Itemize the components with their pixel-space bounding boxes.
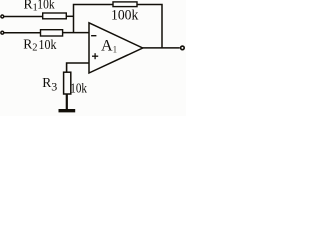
svg-text:100k: 100k (111, 8, 139, 24)
feedback wire to output node (137, 5, 162, 48)
svg-text:A1: A1 (101, 38, 117, 55)
svg-text:10k: 10k (39, 37, 57, 52)
input terminal 2 (1, 31, 4, 34)
output wire (143, 47, 180, 49)
svg-text:10k: 10k (70, 80, 87, 95)
ground (59, 109, 76, 112)
wire R2 to op-amp inverting input (63, 32, 89, 34)
minus sign (91, 35, 96, 37)
input terminal 1 (1, 15, 4, 18)
wire + node to R3 stub (67, 63, 89, 72)
wire input1 to R1 (4, 16, 43, 18)
svg-text:R1: R1 (24, 0, 38, 14)
wire input2 to R2 (4, 32, 41, 34)
plus sign (92, 53, 98, 59)
resistor Rf 100k (113, 2, 137, 7)
svg-text:R2: R2 (23, 36, 37, 53)
resistor R3 10k (64, 72, 71, 94)
wire R1 to node A (66, 15, 73, 17)
svg-text:R3: R3 (42, 75, 57, 93)
output terminal (181, 46, 185, 50)
node A vertical: feedback junction (74, 5, 114, 33)
wire R3 to ground (66, 94, 68, 109)
svg-text:10k: 10k (37, 0, 55, 12)
op-amp A1 triangle (89, 23, 143, 73)
resistor R1 10k (43, 13, 67, 19)
resistor R2 10k (41, 30, 63, 36)
